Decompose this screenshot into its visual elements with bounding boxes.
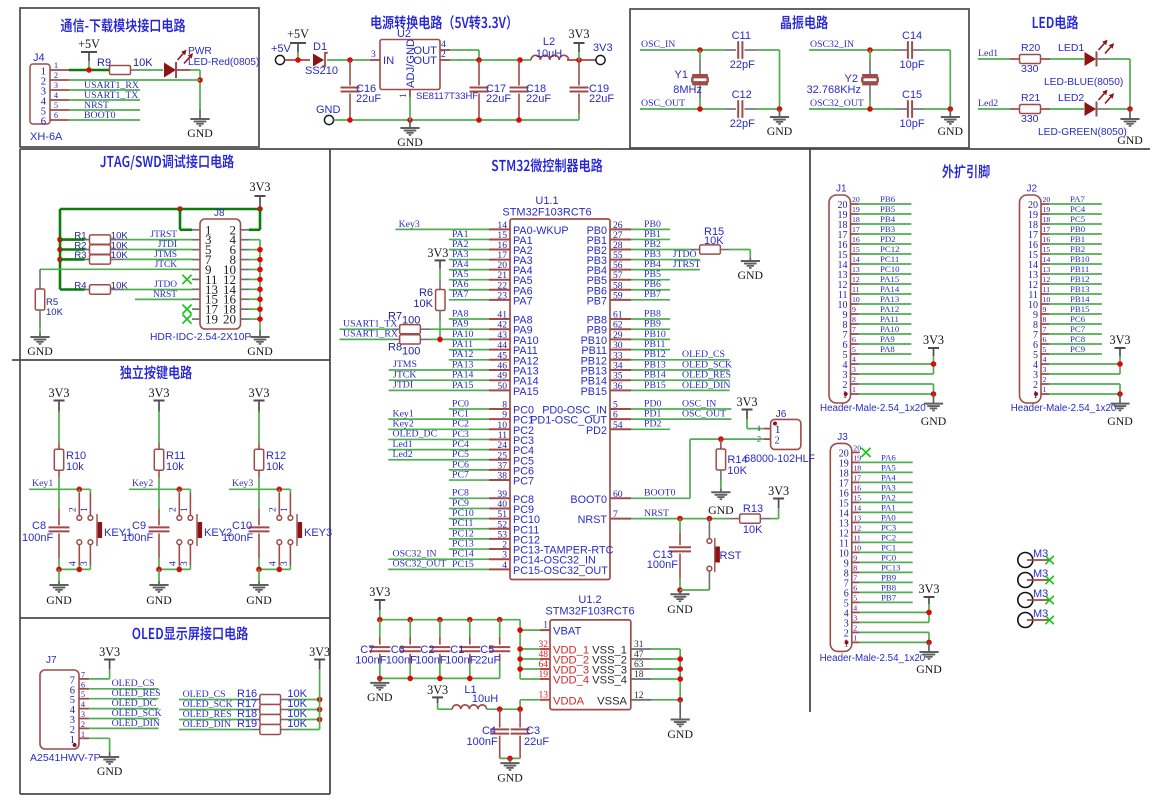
power +5V: [78, 37, 100, 70]
svg-text:J6: J6: [776, 409, 787, 420]
svg-text:PD2: PD2: [586, 425, 607, 437]
svg-text:JTDI: JTDI: [158, 240, 177, 250]
ground J3: [916, 642, 942, 676]
junction: [437, 617, 443, 623]
svg-text:U2: U2: [397, 28, 411, 40]
svg-text:3V3: 3V3: [1110, 333, 1131, 347]
svg-text:R13: R13: [743, 503, 763, 515]
capacitor C1 100nF: [445, 620, 480, 679]
junction: [1117, 391, 1123, 397]
wire right leg: [949, 50, 951, 109]
junction: [497, 706, 503, 712]
svg-text:PA15: PA15: [513, 386, 539, 398]
wires PB0 PB1: [631, 219, 670, 240]
svg-text:19: 19: [205, 312, 218, 327]
wire D1 to IN: [327, 59, 370, 61]
svg-text:PB15: PB15: [1070, 304, 1090, 314]
svg-text:38: 38: [497, 471, 507, 482]
svg-text:3V3: 3V3: [737, 395, 758, 409]
wire JTMS PA13: [389, 359, 489, 370]
svg-text:PA7: PA7: [452, 289, 469, 300]
svg-text:JTRST: JTRST: [150, 230, 177, 240]
svg-text:PB5: PB5: [880, 204, 896, 214]
svg-text:330: 330: [1021, 63, 1039, 75]
svg-text:PB6: PB6: [880, 194, 896, 204]
wire OLED_DC pin4: [89, 698, 158, 709]
svg-text:PA9: PA9: [880, 334, 895, 344]
svg-text:10: 10: [1043, 295, 1051, 304]
svg-text:OUT: OUT: [413, 55, 437, 67]
no-connect X pin19: [182, 314, 191, 323]
no-connect X pin17: [182, 305, 191, 314]
svg-text:PB4: PB4: [880, 214, 896, 224]
svg-text:10k: 10k: [266, 461, 284, 473]
svg-text:9: 9: [853, 553, 857, 562]
svg-text:U1.1: U1.1: [535, 195, 558, 207]
junction: [317, 707, 323, 713]
junction: [257, 306, 263, 312]
junction: [677, 676, 683, 682]
svg-text:PC15: PC15: [452, 559, 474, 570]
svg-text:GND: GND: [146, 593, 172, 607]
svg-text:2: 2: [269, 507, 279, 512]
svg-text:LED2: LED2: [1058, 92, 1084, 104]
svg-text:PA0: PA0: [881, 513, 896, 523]
svg-text:OSC32_IN: OSC32_IN: [810, 39, 854, 50]
title LED电路: [1033, 15, 1079, 29]
power 3V3 key3: [249, 386, 270, 443]
svg-text:+5V: +5V: [78, 37, 100, 51]
svg-text:100nF: 100nF: [386, 655, 417, 667]
svg-text:16: 16: [852, 235, 860, 244]
wire JTCK: [40, 260, 192, 270]
junction: [347, 117, 353, 123]
title 外扩引脚: [942, 164, 989, 178]
svg-text:4: 4: [853, 603, 857, 612]
junction: [516, 117, 522, 123]
junction: [257, 247, 263, 253]
svg-text:PC8: PC8: [1070, 334, 1086, 344]
svg-text:VSS_4: VSS_4: [592, 675, 627, 687]
wire Key1 PC1: [388, 408, 489, 419]
svg-text:GND: GND: [921, 414, 947, 428]
LED LED2 LED-GREEN(8050): [1038, 90, 1127, 138]
junction: [257, 267, 263, 273]
wire PB12 OLED_CS: [631, 349, 730, 360]
wire R20 to LED1: [1050, 58, 1084, 60]
svg-text:NRST: NRST: [153, 290, 177, 300]
svg-text:3V3: 3V3: [923, 333, 944, 347]
power rail 3V3: [369, 585, 390, 620]
svg-text:GND: GND: [316, 104, 341, 116]
junction: [177, 487, 183, 493]
svg-text:13: 13: [853, 513, 861, 522]
svg-text:PC3: PC3: [881, 523, 897, 533]
svg-text:5: 5: [1043, 345, 1047, 354]
svg-text:20: 20: [852, 195, 860, 204]
svg-text:M3: M3: [1033, 548, 1048, 560]
svg-text:3: 3: [852, 365, 856, 374]
resistor R14 10K: [716, 439, 747, 489]
resistor R17 10K: [237, 698, 320, 714]
capacitor C16 22uF: [341, 60, 382, 120]
svg-text:3V3: 3V3: [99, 645, 120, 659]
svg-text:3: 3: [80, 561, 90, 566]
wire C4 C3 bottom: [500, 757, 520, 759]
svg-text:Y1: Y1: [675, 69, 688, 81]
svg-text:3V3: 3V3: [427, 683, 448, 697]
svg-text:22pF: 22pF: [730, 118, 755, 130]
svg-text:JTDO: JTDO: [154, 280, 177, 290]
svg-text:100nF: 100nF: [122, 532, 153, 544]
wire Key3 node: [229, 478, 290, 489]
resistor R19 10K: [237, 718, 320, 734]
svg-text:5: 5: [81, 690, 85, 699]
svg-text:63: 63: [634, 660, 644, 670]
junction: [517, 627, 523, 633]
svg-text:OLED_DIN: OLED_DIN: [682, 380, 730, 391]
svg-text:100nF: 100nF: [415, 655, 446, 667]
svg-text:GND: GND: [497, 771, 523, 785]
svg-text:17: 17: [852, 225, 860, 234]
svg-text:4: 4: [269, 561, 279, 566]
capacitor C15 10pF: [894, 89, 950, 130]
J1 net wires: [859, 194, 912, 354]
svg-text:3V3: 3V3: [250, 180, 271, 194]
svg-text:PC5: PC5: [1070, 214, 1086, 224]
wire JTMS: [124, 250, 192, 260]
IC U1.2 STM32F103RCT6: [545, 594, 634, 710]
wire U2 pin1 to rail: [409, 97, 411, 120]
wires J1 3V3 pins 4 3: [859, 364, 934, 374]
ground: [767, 109, 793, 138]
svg-text:A2541HWV-7P: A2541HWV-7P: [30, 752, 101, 764]
svg-text:10uH: 10uH: [472, 693, 498, 705]
svg-text:22uF: 22uF: [475, 655, 500, 667]
svg-text:HDR-IDC-2.54-2X10P: HDR-IDC-2.54-2X10P: [150, 332, 251, 343]
capacitor C11 22pF: [725, 30, 757, 71]
svg-text:10K: 10K: [133, 57, 153, 69]
wire OLED_CS pullup: [179, 689, 251, 700]
svg-text:KEY3: KEY3: [304, 527, 332, 539]
wires PC8-PC13: [449, 488, 489, 550]
junction: [677, 697, 683, 703]
svg-text:OSC_OUT: OSC_OUT: [641, 98, 685, 109]
wire +5V to D1: [285, 59, 310, 61]
wire OLED_RES pin5: [89, 688, 160, 699]
svg-text:STM32F103RCT6: STM32F103RCT6: [502, 207, 591, 219]
junction: [407, 617, 413, 623]
mounting hole M3 #1: [1018, 548, 1054, 568]
connector J6 68000-102HLF: [744, 409, 815, 465]
power 3V3: [99, 645, 120, 679]
resistor R6 10K: [413, 280, 445, 339]
crystal Y2 32.768KHz: [807, 50, 878, 109]
svg-text:2: 2: [775, 436, 780, 447]
svg-text:7: 7: [81, 670, 85, 679]
junction: [377, 676, 383, 682]
wires J3 GND pins 2 1: [860, 632, 929, 642]
junction: [517, 666, 523, 672]
junction: [197, 77, 203, 83]
svg-text:GND: GND: [667, 727, 693, 741]
wire J8 right side to GND: [249, 240, 260, 330]
junction: [86, 67, 92, 73]
wire Led2: [978, 98, 1010, 109]
svg-text:3V3: 3V3: [919, 582, 940, 596]
junction: [257, 206, 263, 212]
junction: [77, 567, 83, 573]
svg-text:PA12: PA12: [880, 304, 899, 314]
svg-text:3: 3: [54, 81, 58, 90]
mounting hole M3 #3: [1018, 588, 1054, 608]
wire ground rail: [334, 119, 579, 121]
capacitor C19 22uF: [570, 60, 615, 120]
svg-text:Key3: Key3: [399, 219, 420, 230]
capacitor C17 22uF: [470, 60, 512, 120]
svg-text:GND: GND: [247, 344, 273, 358]
pushbutton KEY2: [169, 489, 233, 569]
resistor R1 10K: [60, 230, 128, 244]
wire PD1 OSC_OUT: [631, 409, 731, 420]
svg-text:1: 1: [398, 93, 409, 98]
capacitor C3 22uF: [511, 709, 550, 758]
svg-text:100: 100: [402, 346, 420, 358]
svg-text:PB7: PB7: [881, 593, 897, 603]
capacitor C10 100nF: [222, 489, 270, 569]
junction: [156, 567, 162, 573]
resistor R12 10k: [254, 443, 286, 489]
svg-text:11: 11: [852, 285, 860, 294]
junction: [517, 656, 523, 662]
power 3V3 L1: [427, 683, 448, 709]
svg-text:11: 11: [853, 533, 861, 542]
svg-text:23: 23: [497, 290, 507, 301]
ground: [187, 110, 213, 140]
inductor L1 10uH: [438, 684, 499, 709]
junction: [677, 666, 683, 672]
wire PB4 JTRST: [631, 259, 700, 270]
svg-text:PA13: PA13: [880, 294, 900, 304]
IC U1.1 STM32F103RCT6: [502, 195, 613, 580]
wire NRST: [69, 100, 140, 111]
wire BOOT0: [69, 110, 140, 121]
svg-text:PA7: PA7: [513, 295, 533, 307]
svg-text:10: 10: [852, 295, 860, 304]
svg-text:PA6: PA6: [881, 453, 896, 463]
svg-text:4: 4: [69, 561, 79, 566]
wires J2 3V3 pins 4 3: [1049, 364, 1120, 374]
ground: [246, 569, 272, 607]
J3 net wires: [860, 453, 913, 603]
svg-text:22uF: 22uF: [486, 93, 511, 105]
svg-text:BOOT0: BOOT0: [84, 110, 116, 121]
svg-text:C14: C14: [902, 30, 922, 42]
junction: [926, 610, 932, 616]
svg-text:2: 2: [853, 623, 857, 632]
svg-text:PWR: PWR: [188, 46, 212, 57]
capacitor C5 22uF: [475, 620, 510, 679]
svg-text:10K: 10K: [287, 718, 307, 730]
J2 net wires: [1049, 194, 1102, 354]
svg-text:PC7: PC7: [513, 476, 534, 488]
svg-text:3: 3: [371, 49, 376, 60]
wires J1 GND pins 2 1: [859, 384, 934, 394]
junction: [256, 567, 262, 573]
junction: [377, 617, 383, 623]
svg-text:7: 7: [853, 573, 857, 582]
svg-text:10K: 10K: [743, 524, 763, 536]
junction: [1117, 361, 1123, 367]
ground VSS: [667, 700, 693, 741]
terminal +5V input: [271, 27, 309, 65]
wire bottom rail: [380, 677, 500, 679]
svg-text:1: 1: [1043, 385, 1047, 394]
ground: [97, 752, 123, 778]
svg-text:BOOT0: BOOT0: [570, 494, 607, 506]
svg-text:20: 20: [223, 312, 236, 327]
svg-text:1: 1: [80, 507, 90, 512]
wire JTDI: [124, 240, 192, 250]
svg-text:60: 60: [613, 489, 623, 500]
svg-text:R7: R7: [388, 311, 402, 323]
svg-text:Header-Male-2.54_1x20: Header-Male-2.54_1x20: [1011, 403, 1117, 414]
wire NRST: [135, 290, 192, 300]
capacitor C7 100nF: [355, 620, 390, 679]
svg-text:8: 8: [1043, 315, 1047, 324]
svg-text:19: 19: [853, 453, 861, 462]
svg-text:PB7: PB7: [644, 289, 661, 300]
wire OSC32_IN PC14: [388, 548, 489, 559]
junction: [257, 316, 263, 322]
svg-text:Key2: Key2: [132, 478, 153, 489]
wires PA1-PA7: [449, 229, 489, 300]
wire JTDO: [124, 280, 192, 290]
junction: [277, 487, 283, 493]
svg-text:18: 18: [853, 463, 861, 472]
resistor R4 10K: [60, 280, 128, 294]
no-connect J3 pin20: [861, 448, 870, 457]
ground: [46, 569, 72, 607]
svg-text:OSC32_OUT: OSC32_OUT: [810, 98, 864, 109]
svg-text:PC11: PC11: [880, 254, 899, 264]
svg-text:5: 5: [853, 593, 857, 602]
junction: [697, 47, 703, 53]
LED PWR LED-Red(0805): [164, 46, 259, 78]
junction: [467, 617, 473, 623]
svg-text:13: 13: [1043, 265, 1051, 274]
terminal GND: [316, 104, 341, 125]
svg-text:PA3: PA3: [881, 483, 896, 493]
ground C13: [667, 590, 693, 616]
connector J1 Header-Male-2.54_1x20: [820, 184, 926, 415]
wire Led1 PC4: [388, 439, 489, 450]
svg-text:68000-102HLF: 68000-102HLF: [744, 453, 815, 465]
wires VSS to GND: [652, 649, 681, 700]
svg-text:PB15: PB15: [644, 380, 666, 391]
svg-text:PC1: PC1: [881, 543, 896, 553]
svg-text:VSSA: VSSA: [597, 695, 627, 707]
junction: [437, 676, 443, 682]
junction: [677, 656, 683, 662]
svg-text:2: 2: [54, 71, 58, 80]
junction: [295, 57, 301, 63]
svg-text:Led2: Led2: [393, 449, 413, 460]
svg-text:M3: M3: [1033, 588, 1048, 600]
svg-text:4: 4: [169, 561, 179, 566]
junction: [931, 361, 937, 367]
svg-text:2: 2: [1043, 375, 1047, 384]
svg-text:PA8: PA8: [880, 344, 895, 354]
power 3V3 J6: [737, 395, 758, 429]
svg-text:12: 12: [852, 275, 860, 284]
svg-text:47: 47: [634, 650, 644, 660]
wire PB15 OLED_DIN: [631, 380, 730, 391]
svg-text:1: 1: [757, 424, 761, 433]
svg-text:PA10: PA10: [880, 324, 900, 334]
svg-text:JTMS: JTMS: [154, 250, 177, 260]
diode D1 SS210: [305, 41, 338, 77]
svg-text:PB9: PB9: [881, 573, 897, 583]
wire OLED_SCK pullup: [179, 699, 251, 710]
svg-text:20: 20: [1043, 195, 1051, 204]
title 通信-下载模块接口电路: [61, 18, 186, 32]
svg-text:10uH: 10uH: [536, 48, 562, 60]
svg-text:PA11: PA11: [880, 314, 899, 324]
svg-text:6: 6: [852, 335, 856, 344]
svg-text:2: 2: [81, 720, 85, 729]
wire OLED_DC PC3: [388, 429, 489, 440]
svg-text:2: 2: [69, 507, 79, 512]
wire +5V to R9: [69, 69, 110, 71]
svg-text:USART1_RX: USART1_RX: [343, 329, 398, 340]
wire OUT4: [450, 50, 479, 60]
svg-text:J3: J3: [837, 432, 848, 443]
svg-text:OLED_DIN: OLED_DIN: [112, 718, 160, 729]
wire OLED_SCK pin3: [89, 708, 161, 719]
svg-text:PD2: PD2: [644, 419, 662, 430]
svg-text:6: 6: [41, 117, 46, 128]
svg-text:OLED_DIN: OLED_DIN: [183, 719, 231, 730]
connector J4: [30, 52, 69, 143]
resistor R16 10K: [237, 688, 320, 704]
svg-text:3: 3: [1043, 365, 1047, 374]
resistor R8 100: [388, 335, 489, 358]
resistor R9 10K: [97, 57, 153, 75]
junction: [497, 617, 503, 623]
svg-text:16: 16: [853, 483, 861, 492]
ground: [247, 330, 273, 358]
svg-text:12: 12: [1043, 275, 1051, 284]
svg-text:PB11: PB11: [1070, 264, 1089, 274]
svg-text:14: 14: [1043, 255, 1051, 264]
wire Key1 node: [29, 478, 90, 489]
ground: [397, 120, 423, 149]
svg-text:J7: J7: [46, 655, 57, 666]
svg-text:PC13: PC13: [881, 563, 901, 573]
capacitor C13 100nF: [647, 519, 691, 590]
junction: [77, 487, 83, 493]
svg-text:12: 12: [634, 691, 644, 701]
pushbutton KEY3: [269, 489, 333, 569]
svg-text:OSC_IN: OSC_IN: [641, 39, 675, 50]
wire key bottom: [159, 568, 190, 570]
svg-text:6: 6: [853, 583, 857, 592]
svg-text:5: 5: [54, 101, 58, 110]
wire USART1_TX PA9: [340, 318, 469, 329]
wire BOOT0 to J6 pin2: [631, 439, 764, 498]
svg-text:Key1: Key1: [32, 478, 53, 489]
